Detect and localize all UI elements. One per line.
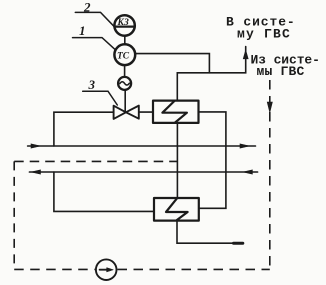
heat exchanger HX2 (stage 1) bbox=[154, 198, 199, 221]
dashed circulation left riser bbox=[13, 161, 15, 269]
svg-text:1: 1 bbox=[79, 23, 86, 38]
impulse line TC to outlet pipe bbox=[135, 54, 209, 73]
pipe HX1 top outlet to GVS riser bbox=[177, 47, 245, 101]
label 3 leader bbox=[83, 91, 118, 105]
valve actuator (~) bbox=[118, 77, 131, 90]
pipe valve to HX1 bbox=[139, 111, 153, 113]
instrument TC (pos. 1) bbox=[114, 44, 135, 65]
circulation down arrow bbox=[267, 102, 272, 113]
return arrow left bbox=[31, 170, 41, 174]
supply arrow right bbox=[240, 144, 250, 148]
instrument KS (pos. 2) bbox=[114, 15, 134, 35]
pipe branch from supply main to valve bbox=[54, 112, 114, 146]
cold water line end bbox=[234, 242, 243, 245]
control valve 3 bbox=[114, 106, 139, 119]
circulation from GVS system (dashed riser) bbox=[269, 80, 271, 269]
label 2 leader bbox=[75, 12, 115, 27]
wire TC to actuator bbox=[124, 65, 126, 77]
pipe HX2 left to return main bbox=[54, 172, 154, 211]
circulation pump bbox=[96, 259, 117, 280]
svg-text:му ГВС: му ГВС bbox=[237, 27, 291, 42]
wire KS to TC bbox=[124, 36, 126, 45]
return arrow right bbox=[243, 170, 253, 174]
svg-text:мы ГВС: мы ГВС bbox=[257, 64, 305, 79]
pipe HX1 bottom to HX2 top bbox=[176, 123, 178, 198]
circulation dashed line to inter-stage pipe bbox=[14, 160, 177, 162]
svg-text:3: 3 bbox=[88, 77, 96, 92]
pipe HX2 bottom cold water line bbox=[177, 221, 243, 244]
arrow up to GVS system bbox=[243, 50, 248, 59]
heating return main bbox=[29, 171, 257, 173]
heat exchanger HX1 (stage 2) bbox=[153, 101, 199, 123]
label 1 leader bbox=[73, 38, 116, 50]
valve stem bbox=[124, 90, 126, 112]
svg-text:ТС: ТС bbox=[117, 52, 130, 62]
heating supply main bbox=[28, 145, 256, 147]
supply arrow left bbox=[31, 144, 41, 148]
dashed circulation bottom run bbox=[14, 268, 95, 270]
svg-text:КЗ: КЗ bbox=[117, 18, 129, 28]
pipe HX1 right to HX2 right bbox=[199, 112, 226, 208]
